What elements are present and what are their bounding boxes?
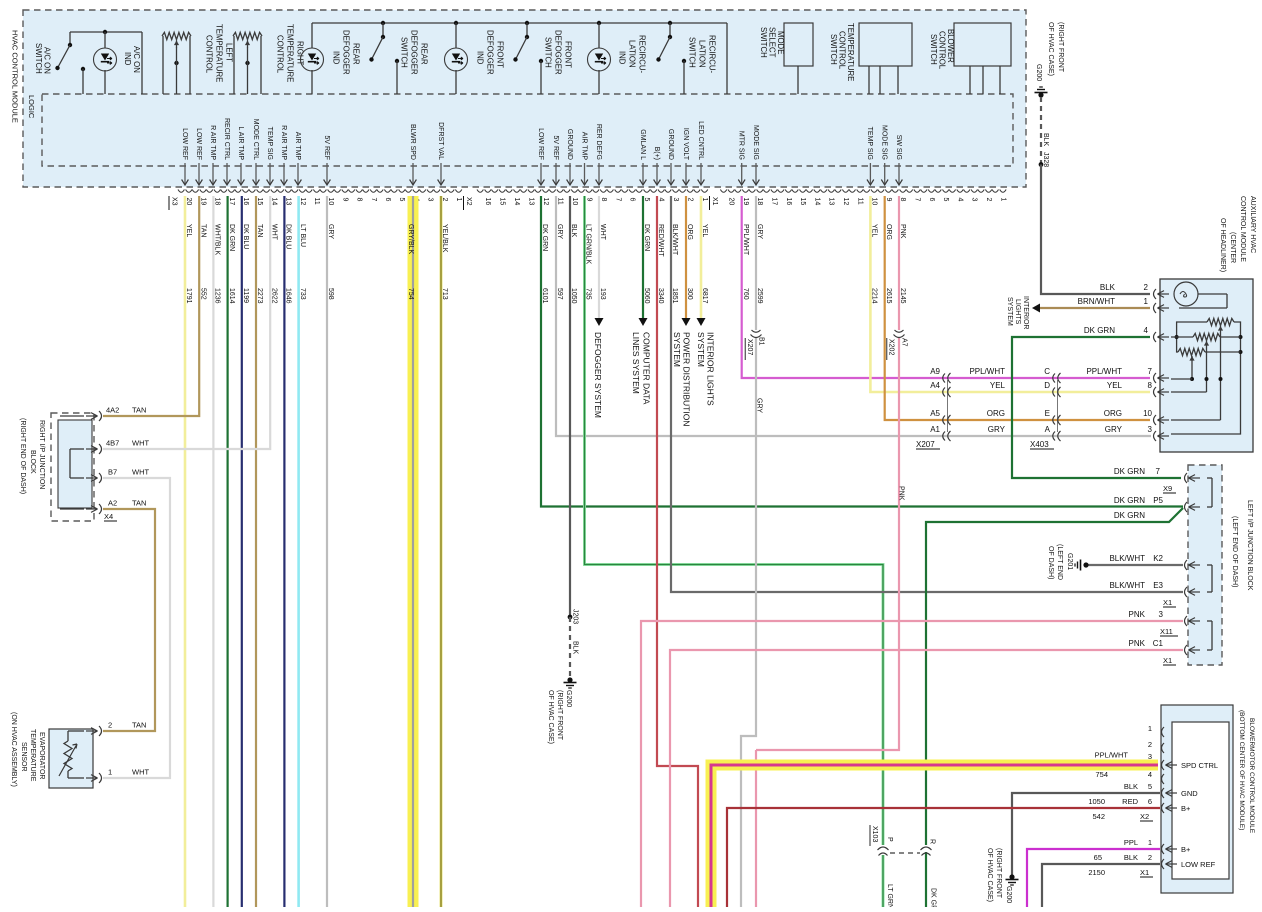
svg-text:DFRST VAL: DFRST VAL — [437, 122, 444, 160]
svg-text:1: 1 — [1144, 297, 1149, 306]
svg-text:E3: E3 — [1153, 581, 1163, 590]
svg-text:193: 193 — [599, 288, 606, 300]
svg-text:(LEFT END OF DASH): (LEFT END OF DASH) — [1231, 516, 1238, 587]
wire GRY 597 (X2-11) to X207 A1 / aux module 3 — [556, 196, 1151, 436]
wire PPL/WHT 760 (X1-19) to aux module 7 — [742, 196, 1150, 378]
svg-text:12: 12 — [542, 198, 549, 206]
svg-text:DEFOGGER: DEFOGGER — [554, 30, 563, 75]
svg-text:7: 7 — [370, 198, 377, 202]
svg-text:BLK/WHT: BLK/WHT — [1109, 581, 1145, 590]
svg-text:BLK/WHT: BLK/WHT — [671, 224, 678, 256]
svg-text:LOW REF: LOW REF — [537, 128, 544, 160]
wire YEL/BLK 713 (X3-2) — [440, 196, 443, 907]
svg-text:B+: B+ — [1181, 804, 1191, 813]
svg-text:2599: 2599 — [756, 288, 763, 304]
svg-text:WHT: WHT — [132, 439, 149, 448]
svg-text:9: 9 — [585, 198, 592, 202]
svg-text:GRY: GRY — [988, 425, 1006, 434]
svg-text:LINES SYSTEM: LINES SYSTEM — [631, 332, 641, 394]
wire YEL 2214 (X1-10) to aux module 8 — [870, 196, 1150, 392]
svg-text:G200: G200 — [1035, 64, 1042, 81]
svg-text:TEMP SIG: TEMP SIG — [266, 127, 273, 160]
svg-text:8: 8 — [899, 198, 906, 202]
svg-text:YEL: YEL — [701, 224, 708, 237]
wire YEL 1791 (X3-20) — [184, 196, 187, 907]
svg-text:7: 7 — [1156, 467, 1161, 476]
A/C ON indicator LED — [103, 30, 107, 34]
sensor pin 1 — [99, 773, 102, 783]
aux module lamp — [1174, 282, 1198, 306]
pin C1 — [1185, 645, 1188, 655]
svg-text:3: 3 — [1148, 752, 1152, 761]
svg-text:5V REF: 5V REF — [323, 135, 330, 160]
svg-text:MTR SIG: MTR SIG — [738, 131, 745, 160]
svg-text:4: 4 — [1148, 770, 1152, 779]
svg-text:FRONT: FRONT — [564, 41, 573, 68]
svg-text:BLK: BLK — [572, 641, 579, 655]
svg-text:6: 6 — [384, 198, 391, 202]
svg-text:DK GRN: DK GRN — [541, 224, 548, 251]
wire PNK to pin 3 — [641, 621, 1183, 907]
svg-text:(CENTER: (CENTER — [1229, 232, 1236, 263]
svg-text:4: 4 — [956, 198, 963, 202]
aux module resistor network — [1207, 318, 1234, 325]
svg-text:TAN: TAN — [132, 499, 146, 508]
svg-text:4: 4 — [658, 198, 665, 202]
A/C ON switch — [69, 32, 71, 45]
svg-text:4A2: 4A2 — [106, 406, 119, 415]
svg-text:12: 12 — [842, 198, 849, 206]
svg-text:6817: 6817 — [701, 288, 708, 304]
svg-text:IGN VOLT: IGN VOLT — [682, 128, 689, 161]
svg-text:760: 760 — [742, 288, 749, 300]
svg-text:597: 597 — [556, 288, 563, 300]
svg-text:PNK: PNK — [1129, 639, 1146, 648]
svg-text:P: P — [886, 837, 893, 842]
pin 7 X9 — [1185, 473, 1188, 483]
wire RED/WHT 3340 (X2-4) — [657, 196, 698, 907]
aux pin 4 DK GRN — [1154, 332, 1157, 342]
svg-text:1050: 1050 — [570, 288, 577, 304]
svg-text:DEFOGGER: DEFOGGER — [486, 30, 495, 75]
svg-text:ORG: ORG — [1104, 409, 1122, 418]
svg-text:REAR: REAR — [420, 43, 429, 65]
svg-text:PNK: PNK — [1129, 610, 1146, 619]
svg-text:D: D — [1044, 381, 1050, 390]
evaporator temperature sensor — [49, 729, 93, 788]
wire PNK to pin C1 — [670, 650, 1183, 907]
svg-text:GRY: GRY — [756, 224, 763, 239]
svg-text:1791: 1791 — [185, 288, 192, 304]
svg-text:8: 8 — [600, 198, 607, 202]
svg-text:10: 10 — [1143, 409, 1152, 418]
svg-text:X2: X2 — [1140, 812, 1149, 821]
svg-text:ORG: ORG — [987, 409, 1005, 418]
svg-text:SWITCH: SWITCH — [544, 37, 553, 68]
svg-text:713: 713 — [441, 288, 448, 300]
svg-text:ORG: ORG — [885, 224, 892, 240]
svg-text:GRY: GRY — [756, 398, 763, 413]
svg-text:3: 3 — [427, 198, 434, 202]
wire DK GRN 5060 (X2-5) to computer data lines — [642, 196, 644, 318]
svg-text:14: 14 — [513, 198, 520, 206]
left temperature control potentiometer — [162, 32, 191, 39]
thermistor symbol — [67, 731, 69, 741]
svg-text:2: 2 — [108, 721, 112, 730]
svg-text:6: 6 — [928, 198, 935, 202]
svg-text:YEL: YEL — [871, 224, 878, 237]
front defogger switch — [525, 21, 529, 25]
svg-text:5: 5 — [643, 198, 650, 202]
svg-text:5: 5 — [1148, 782, 1152, 791]
svg-text:R AIR TMP: R AIR TMP — [209, 125, 216, 160]
svg-text:14: 14 — [270, 198, 277, 206]
svg-text:HVAC CONTROL MODULE: HVAC CONTROL MODULE — [11, 30, 20, 123]
svg-text:LOGIC: LOGIC — [27, 95, 36, 119]
svg-text:SWITCH: SWITCH — [759, 27, 768, 58]
svg-text:GRY/BLK: GRY/BLK — [407, 224, 414, 255]
svg-text:X1: X1 — [711, 197, 718, 206]
wire GRY/BLK 754 blower speed, highlighted (X3-4) — [408, 196, 419, 907]
svg-text:R AIR TMP: R AIR TMP — [280, 125, 287, 160]
blower pin 5 GND BLK 1050 to G200 — [1012, 793, 1160, 876]
svg-text:OF HVAC CASE): OF HVAC CASE) — [547, 690, 554, 744]
svg-text:X103: X103 — [871, 826, 878, 842]
svg-text:WHT: WHT — [132, 768, 149, 777]
connector row X207 — [947, 380, 949, 432]
svg-text:10: 10 — [571, 198, 578, 206]
svg-text:DK BLU: DK BLU — [285, 224, 292, 249]
temperature control switch — [859, 23, 912, 66]
svg-text:RECIRCU-: RECIRCU- — [638, 35, 647, 74]
svg-text:3: 3 — [1159, 610, 1164, 619]
svg-text:1614: 1614 — [228, 288, 235, 304]
svg-text:733: 733 — [299, 288, 306, 300]
svg-text:7: 7 — [1148, 367, 1153, 376]
svg-text:B+: B+ — [1181, 845, 1191, 854]
mode select switch — [784, 23, 813, 66]
svg-text:P5: P5 — [1153, 496, 1163, 505]
svg-text:DK GRN: DK GRN — [1114, 496, 1145, 505]
svg-text:3: 3 — [672, 198, 679, 202]
svg-text:18: 18 — [756, 198, 763, 206]
svg-text:SPD CTRL: SPD CTRL — [1181, 761, 1218, 770]
svg-text:X1: X1 — [1163, 656, 1172, 665]
svg-text:2: 2 — [1148, 853, 1152, 862]
svg-text:SWITCH: SWITCH — [829, 34, 838, 65]
svg-text:1: 1 — [999, 198, 1006, 202]
svg-text:RER DEFG: RER DEFG — [595, 124, 602, 160]
svg-text:2: 2 — [687, 198, 694, 202]
wire DK GRN 6101 (X2-12) to left I/P junction block P5 — [541, 196, 1183, 507]
svg-text:X202: X202 — [888, 339, 895, 355]
svg-text:LOW REF: LOW REF — [1181, 860, 1216, 869]
svg-text:A4: A4 — [930, 381, 940, 390]
svg-text:PPL: PPL — [1124, 838, 1138, 847]
svg-text:598: 598 — [327, 288, 334, 300]
svg-text:DK GRN: DK GRN — [228, 224, 235, 251]
svg-text:TAN: TAN — [132, 721, 146, 730]
svg-text:IND: IND — [332, 51, 341, 65]
svg-text:WHT/BLK: WHT/BLK — [214, 224, 221, 255]
svg-text:300: 300 — [686, 288, 693, 300]
svg-text:4B7: 4B7 — [106, 439, 119, 448]
pin 3 X11 — [1185, 616, 1188, 626]
svg-text:G200: G200 — [1005, 886, 1012, 903]
svg-text:LOW REF: LOW REF — [195, 128, 202, 160]
svg-text:18: 18 — [214, 198, 221, 206]
svg-text:1646: 1646 — [285, 288, 292, 304]
aux pin 7 PPL/WHT — [1154, 373, 1157, 383]
svg-text:9: 9 — [885, 198, 892, 202]
right temperature control potentiometer — [233, 32, 262, 39]
svg-text:SYSTEM: SYSTEM — [672, 332, 682, 367]
svg-text:L AIR TMP: L AIR TMP — [237, 127, 244, 161]
svg-text:TEMP SIG: TEMP SIG — [866, 127, 873, 160]
front defogger indicator LED — [454, 21, 458, 25]
svg-text:PPL/WHT: PPL/WHT — [742, 224, 749, 256]
svg-text:16: 16 — [484, 198, 491, 206]
svg-text:13: 13 — [285, 198, 292, 206]
svg-text:IND: IND — [618, 51, 627, 65]
svg-text:INTERIOR: INTERIOR — [1022, 296, 1029, 329]
wire GRY 2599 (X1-18) — [755, 196, 757, 330]
svg-text:5: 5 — [398, 198, 405, 202]
svg-text:GRY: GRY — [327, 224, 334, 239]
svg-text:SW SIG: SW SIG — [895, 135, 902, 160]
pin E3 — [1185, 587, 1188, 597]
wire WHT 2622 (X3-14) to right I/P junction block 4B7 — [103, 196, 270, 449]
wire LT BLU 733 (X3-12) — [297, 196, 300, 907]
svg-text:7: 7 — [914, 198, 921, 202]
svg-text:X2: X2 — [465, 197, 472, 206]
svg-text:BLK: BLK — [1100, 283, 1116, 292]
svg-text:EVAPORATOR: EVAPORATOR — [38, 732, 45, 779]
connector X103 P / R — [878, 847, 889, 856]
svg-text:7: 7 — [614, 198, 621, 202]
svg-text:BLK: BLK — [1124, 853, 1138, 862]
svg-text:YEL: YEL — [1107, 381, 1123, 390]
wire GRY 598 (X3-10) — [326, 196, 328, 907]
pin K2 and ground G201 — [1185, 560, 1188, 570]
svg-text:(ON HVAC ASSEMBLY): (ON HVAC ASSEMBLY) — [10, 712, 17, 787]
svg-text:AUXILIARY HVAC: AUXILIARY HVAC — [1249, 196, 1256, 253]
svg-text:14: 14 — [813, 198, 820, 206]
svg-text:DK GRN: DK GRN — [1114, 467, 1145, 476]
svg-text:754: 754 — [407, 288, 414, 300]
svg-text:LEFT: LEFT — [225, 43, 234, 62]
svg-text:8: 8 — [356, 198, 363, 202]
svg-text:DEFOGGER SYSTEM: DEFOGGER SYSTEM — [593, 332, 603, 418]
wire DK GRN 1614 (X3-17) — [227, 196, 229, 907]
wire DK BLU 1646 (X3-13) — [283, 196, 285, 907]
aux pin 10 ORG — [1154, 415, 1157, 425]
svg-text:J203: J203 — [572, 609, 579, 624]
svg-text:A1: A1 — [930, 425, 940, 434]
svg-text:LOW REF: LOW REF — [181, 128, 188, 160]
svg-text:1: 1 — [108, 768, 112, 777]
svg-text:1: 1 — [1148, 838, 1152, 847]
svg-text:X1: X1 — [1140, 868, 1149, 877]
blower control switch — [954, 23, 1011, 66]
svg-text:(RIGHT END OF DASH): (RIGHT END OF DASH) — [19, 418, 26, 494]
svg-text:BLK/WHT: BLK/WHT — [1109, 554, 1145, 563]
ground G200 (mid page) — [567, 677, 572, 682]
svg-text:2214: 2214 — [871, 288, 878, 304]
svg-text:TEMPERATURE: TEMPERATURE — [29, 729, 36, 782]
pin A2 — [99, 504, 102, 514]
wire LT GRN/BLK 735 (X2-9) to X103 P — [585, 196, 884, 845]
blower pin 6 B+ RED 542 — [727, 808, 1160, 907]
svg-text:LIGHTS: LIGHTS — [1014, 299, 1021, 325]
ground G200 bottom — [1009, 874, 1014, 879]
svg-text:11: 11 — [856, 198, 863, 205]
svg-text:17: 17 — [228, 198, 235, 206]
svg-text:DEFOGGER: DEFOGGER — [410, 30, 419, 75]
svg-text:G200: G200 — [565, 690, 572, 707]
svg-text:X4: X4 — [104, 512, 113, 521]
svg-text:X403: X403 — [1030, 440, 1049, 449]
blower pin 2 LOW REF BLK 2150 — [1042, 864, 1160, 907]
svg-text:16: 16 — [242, 198, 249, 206]
svg-text:CONTROL: CONTROL — [205, 35, 214, 74]
inline connector A7 X202 on PNK wire — [894, 330, 905, 338]
wire ORG 300 (X2-2) to power distribution — [685, 196, 687, 318]
svg-text:OF DASH): OF DASH) — [1047, 546, 1054, 579]
svg-text:PPL/WHT: PPL/WHT — [1086, 367, 1122, 376]
wire ORG 2615 (X1-9) to aux module 10 — [885, 196, 1150, 420]
svg-text:11: 11 — [313, 198, 320, 205]
wire BLK to aux module 2 — [1041, 165, 1150, 295]
svg-text:B(+): B(+) — [653, 147, 660, 160]
aux pin 2 BLK — [1154, 289, 1157, 299]
svg-text:GRY: GRY — [1105, 425, 1123, 434]
svg-text:754: 754 — [1095, 770, 1108, 779]
svg-text:SENSOR: SENSOR — [20, 742, 27, 772]
svg-text:WHT: WHT — [132, 468, 149, 477]
svg-text:X207: X207 — [916, 440, 935, 449]
svg-text:3: 3 — [1148, 425, 1153, 434]
svg-text:TEMPERATURE: TEMPERATURE — [286, 24, 295, 82]
svg-text:C1: C1 — [1153, 639, 1164, 648]
svg-text:(BOTTOM CENTER OF HVAC MODULE): (BOTTOM CENTER OF HVAC MODULE) — [1238, 710, 1245, 830]
wire YEL 6817 (X2-1) to interior lights — [700, 196, 703, 318]
svg-text:GROUND: GROUND — [566, 129, 573, 160]
svg-text:2: 2 — [1148, 740, 1152, 749]
svg-text:PNK: PNK — [899, 224, 906, 239]
logic block — [42, 94, 1013, 166]
svg-text:15: 15 — [256, 198, 263, 206]
svg-text:RIGHT: RIGHT — [296, 41, 305, 65]
wire DK GRN aux 4 to left junction 7 — [1012, 337, 1181, 478]
svg-text:OF HVAC CASE): OF HVAC CASE) — [1047, 22, 1054, 76]
svg-text:TAN: TAN — [199, 224, 206, 237]
svg-text:5060: 5060 — [643, 288, 650, 304]
svg-text:A5: A5 — [930, 409, 940, 418]
svg-text:15: 15 — [499, 198, 506, 206]
svg-text:(RIGHT FRONT: (RIGHT FRONT — [556, 690, 563, 741]
aux pin 8 YEL — [1154, 387, 1157, 397]
svg-text:SYSTEM: SYSTEM — [1006, 297, 1013, 326]
svg-text:K2: K2 — [1153, 554, 1163, 563]
svg-text:LT GRN/BLK: LT GRN/BLK — [886, 884, 893, 907]
svg-text:E: E — [1045, 409, 1050, 418]
auxiliary HVAC control module box — [1160, 279, 1253, 452]
svg-text:INTERIOR LIGHTS: INTERIOR LIGHTS — [706, 332, 716, 406]
svg-text:DK BLU: DK BLU — [242, 224, 249, 249]
svg-text:10: 10 — [327, 198, 334, 206]
svg-text:15: 15 — [799, 198, 806, 206]
svg-text:5: 5 — [942, 198, 949, 202]
svg-text:LED CNTRL: LED CNTRL — [697, 121, 704, 160]
svg-text:A9: A9 — [930, 367, 940, 376]
recirculation indicator LED — [597, 21, 601, 25]
svg-text:3340: 3340 — [657, 288, 664, 304]
svg-text:6: 6 — [1148, 797, 1152, 806]
wire BLK 1050 (X2-10) to G200 — [569, 196, 571, 617]
svg-text:LT BLU: LT BLU — [299, 224, 306, 247]
junction block internal wires — [60, 415, 84, 417]
svg-text:WHT: WHT — [599, 224, 606, 241]
blower pin 3 SPD CTRL, highlighted PPL/WHT 754 — [711, 765, 1158, 907]
svg-text:TAN: TAN — [256, 224, 263, 237]
svg-text:BLK: BLK — [570, 224, 577, 238]
svg-text:SYSTEM: SYSTEM — [696, 332, 706, 367]
svg-text:19: 19 — [199, 198, 206, 206]
svg-text:DEFOGGER: DEFOGGER — [342, 30, 351, 75]
svg-text:B1: B1 — [758, 337, 765, 346]
svg-text:A2: A2 — [108, 499, 117, 508]
LED supply bus wire — [312, 22, 727, 24]
svg-text:G201: G201 — [1066, 553, 1073, 570]
svg-text:R: R — [929, 839, 936, 844]
svg-text:1199: 1199 — [242, 288, 249, 303]
wire TAN 552 (X3-19) to right I/P junction block 4A2 — [103, 196, 199, 416]
svg-text:MODE SIG: MODE SIG — [881, 125, 888, 160]
svg-text:1851: 1851 — [671, 288, 678, 304]
svg-text:COMPUTER DATA: COMPUTER DATA — [642, 332, 652, 405]
pin P5 — [1185, 502, 1188, 512]
svg-text:YEL: YEL — [185, 224, 192, 237]
svg-text:(RIGHT FRONT: (RIGHT FRONT — [1057, 22, 1064, 73]
ground G200 top right — [1035, 92, 1048, 94]
svg-text:(LEFT END: (LEFT END — [1056, 544, 1063, 580]
svg-text:542: 542 — [1092, 812, 1105, 821]
aux pin 1 BRN/WHT — [1154, 303, 1157, 313]
wiper arms — [1220, 326, 1222, 330]
svg-text:TAN: TAN — [132, 406, 146, 415]
svg-text:3: 3 — [971, 198, 978, 202]
svg-text:A: A — [1045, 425, 1051, 434]
svg-text:IND: IND — [476, 51, 485, 65]
svg-text:IND: IND — [123, 52, 132, 66]
svg-text:735: 735 — [585, 288, 592, 300]
wire BLK/WHT 1851 (X2-3) to left I/P junction E3 — [671, 196, 1183, 592]
svg-text:BLK: BLK — [1124, 782, 1138, 791]
svg-text:5V REF: 5V REF — [552, 135, 559, 160]
svg-text:ORG: ORG — [686, 224, 693, 240]
right I/P junction block — [51, 413, 94, 521]
wire BRN/WHT to interior lights system — [1040, 307, 1150, 309]
svg-text:GROUND: GROUND — [667, 129, 674, 160]
wire TAN A2 to evaporator sensor 2 — [103, 509, 155, 731]
svg-text:DK GRN: DK GRN — [1114, 511, 1145, 520]
svg-text:16: 16 — [785, 198, 792, 206]
svg-text:B7: B7 — [108, 468, 117, 477]
svg-text:1236: 1236 — [214, 288, 221, 304]
svg-text:A/C ON: A/C ON — [132, 46, 141, 73]
svg-text:OF HVAC CASE): OF HVAC CASE) — [986, 848, 993, 902]
